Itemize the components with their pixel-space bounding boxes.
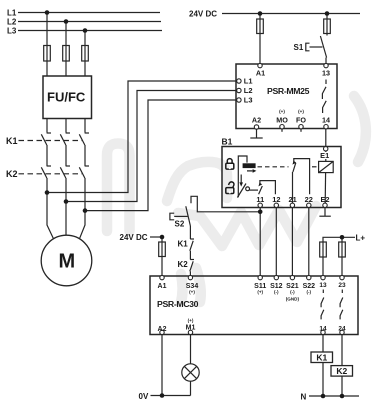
- svg-text:0V: 0V: [139, 392, 149, 401]
- svg-text:13: 13: [319, 282, 327, 289]
- svg-text:L3: L3: [244, 96, 253, 105]
- svg-text:(+): (+): [298, 109, 304, 114]
- svg-text:(+): (+): [279, 109, 285, 114]
- svg-text:K2: K2: [178, 260, 189, 269]
- svg-text:B1: B1: [222, 137, 233, 147]
- svg-text:E1: E1: [320, 151, 329, 160]
- svg-text:K2: K2: [6, 169, 18, 179]
- svg-text:14: 14: [319, 326, 327, 333]
- svg-text:N: N: [301, 392, 307, 401]
- svg-text:K1: K1: [316, 352, 327, 362]
- svg-text:FU/FC: FU/FC: [47, 90, 86, 105]
- svg-text:K2: K2: [336, 366, 347, 376]
- svg-text:23: 23: [338, 282, 346, 289]
- svg-text:M1: M1: [186, 325, 196, 332]
- svg-text:13: 13: [322, 69, 330, 78]
- svg-text:E2: E2: [320, 195, 329, 204]
- svg-text:(+): (+): [257, 290, 263, 295]
- svg-text:(+): (+): [188, 318, 194, 323]
- svg-text:A1: A1: [256, 69, 265, 78]
- svg-text:(-): (-): [290, 290, 295, 295]
- svg-text:PSR-MM25: PSR-MM25: [267, 86, 310, 96]
- svg-text:L2: L2: [7, 18, 17, 27]
- svg-text:A1: A1: [158, 283, 167, 290]
- svg-text:24V DC: 24V DC: [120, 233, 148, 242]
- svg-text:L1: L1: [244, 77, 253, 86]
- svg-text:L3: L3: [7, 27, 17, 36]
- svg-text:L1: L1: [7, 9, 17, 18]
- svg-text:(-): (-): [274, 290, 279, 295]
- svg-text:12: 12: [272, 195, 280, 204]
- svg-text:(GND): (GND): [286, 297, 300, 302]
- svg-text:S1: S1: [294, 43, 304, 52]
- svg-text:24: 24: [338, 326, 346, 333]
- svg-text:(+): (+): [189, 290, 195, 295]
- svg-text:K1: K1: [6, 136, 18, 146]
- svg-text:A2: A2: [252, 115, 261, 124]
- svg-text:24V DC: 24V DC: [189, 10, 217, 19]
- svg-text:A2: A2: [158, 326, 167, 333]
- svg-text:L+: L+: [356, 234, 366, 243]
- svg-text:(-): (-): [307, 290, 312, 295]
- svg-text:11: 11: [256, 195, 264, 204]
- svg-text:MO: MO: [276, 115, 288, 124]
- svg-text:K1: K1: [178, 240, 189, 249]
- svg-text:21: 21: [288, 195, 296, 204]
- svg-text:M: M: [59, 251, 76, 273]
- svg-text:14: 14: [322, 115, 330, 124]
- svg-text:S2: S2: [175, 220, 185, 229]
- svg-text:PSR-MC30: PSR-MC30: [157, 299, 199, 309]
- svg-text:22: 22: [305, 195, 313, 204]
- svg-text:FO: FO: [296, 115, 306, 124]
- svg-text:L2: L2: [244, 86, 253, 95]
